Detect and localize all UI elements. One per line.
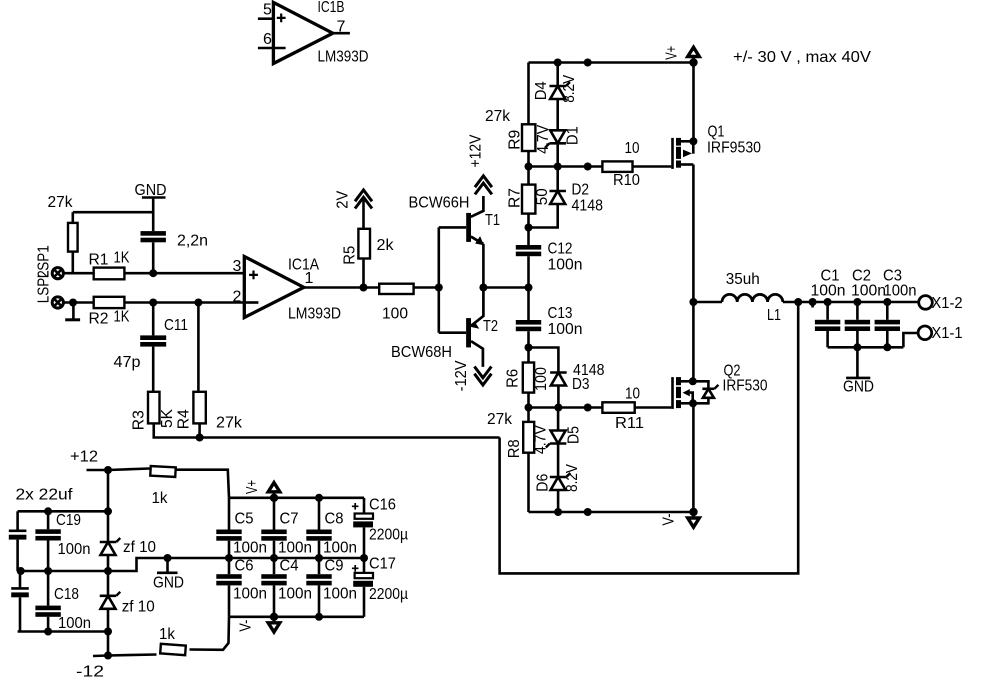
svg-text:V+: V+: [244, 480, 261, 494]
diode D6 8.2V zener: [535, 464, 581, 492]
junction feedback node: [196, 434, 204, 442]
svg-text:50: 50: [534, 188, 551, 205]
wire (to C11): [152, 303, 155, 336]
wire (rail to D4): [556, 63, 559, 87]
junction left bus top: [104, 507, 112, 515]
svg-text:10: 10: [625, 386, 640, 403]
value LM393D (IC1B): [318, 49, 369, 66]
svg-text:1k: 1k: [159, 626, 176, 643]
node A junction: [149, 269, 157, 277]
svg-text:2: 2: [233, 289, 242, 306]
svg-text:+/- 30 V , max 40V: +/- 30 V , max 40V: [733, 49, 871, 66]
wire (C1 bot): [826, 331, 829, 347]
svg-text:IC1B: IC1B: [318, 0, 345, 16]
wire (output to Q2 drain): [692, 302, 695, 381]
svg-text:2200µ: 2200µ: [369, 527, 408, 544]
svg-text:IRF9530: IRF9530: [707, 140, 761, 157]
wire bank V+ rail: [229, 496, 364, 499]
junction C19 mid: [44, 567, 52, 575]
svg-text:100n: 100n: [278, 540, 312, 557]
capacitor C9 100n: [306, 558, 357, 617]
wire (LSP1 to R1): [64, 272, 94, 275]
svg-text:R4: R4: [176, 409, 193, 429]
svg-text:X1-1: X1-1: [932, 325, 963, 342]
svg-text:LM393D: LM393D: [318, 49, 369, 66]
junction C8/C9: [315, 554, 323, 562]
svg-text:D5: D5: [565, 426, 582, 444]
svg-text:100n: 100n: [58, 541, 91, 558]
wire (C2 bot): [856, 331, 859, 347]
svg-text:47p: 47p: [114, 354, 141, 371]
wire (zener2 down): [107, 609, 110, 656]
junction feedback tap: [794, 298, 802, 306]
svg-text:1K: 1K: [114, 309, 130, 326]
junction V- rail D6: [554, 508, 562, 516]
op-amp IC1A: [244, 257, 303, 318]
wire (C2 col): [856, 302, 859, 320]
ground (LSP2 shield): [65, 303, 80, 320]
wire V+ rail: [529, 61, 694, 64]
junction C18 bottom: [44, 628, 52, 636]
resistor R6 100: [505, 363, 551, 393]
svg-text:LSP2: LSP2: [36, 270, 53, 303]
svg-text:L1: L1: [767, 307, 781, 324]
svg-text:7: 7: [337, 19, 346, 36]
wire (R4 column): [197, 303, 200, 392]
junction V- Q2: [690, 508, 698, 516]
resistor 27k input: [48, 194, 154, 273]
junction C16/C17: [360, 554, 368, 562]
junction C12/C13 mid: [525, 284, 533, 292]
wire (node to D3 col): [529, 348, 559, 373]
junction output node: [689, 298, 697, 306]
capacitor C2 100n: [845, 268, 886, 332]
wire (C13 to node 347): [527, 331, 530, 347]
op-amp IC1B: [273, 2, 332, 63]
wire (cap bottom bus): [828, 346, 904, 349]
junction stub x812: [809, 298, 817, 308]
junction Q1 source: [689, 137, 697, 145]
label IC1B: [318, 0, 345, 16]
transistor T1 BCW66H: [409, 195, 501, 246]
svg-text:100: 100: [382, 306, 408, 323]
wire left mid row: [18, 558, 168, 571]
junction row2 left: [525, 404, 533, 412]
capacitor 2,2n: [141, 231, 209, 249]
svg-text:10: 10: [625, 140, 640, 157]
resistor 100: [379, 284, 413, 323]
junction R7/D2/C12: [525, 224, 533, 232]
svg-text:C9: C9: [325, 558, 344, 575]
capacitor C8 100n: [306, 498, 357, 558]
svg-text:+12: +12: [70, 449, 98, 466]
junction Q2 drain: [689, 377, 697, 385]
svg-text:27k: 27k: [48, 194, 74, 211]
diode D1 4.7V zener: [535, 125, 582, 154]
svg-text:3: 3: [233, 258, 242, 275]
pin label 5: [263, 2, 272, 19]
svg-text:100n: 100n: [323, 540, 357, 557]
label -12: [76, 664, 104, 681]
svg-text:100n: 100n: [323, 586, 357, 603]
svg-text:C13: C13: [548, 305, 573, 322]
wire (+12 to 1k): [108, 469, 150, 471]
svg-text:4.7V: 4.7V: [532, 425, 549, 454]
resistor 1k top: [150, 466, 175, 507]
ground GND (bank): [153, 554, 184, 592]
wire (row1 to D2): [556, 167, 559, 192]
wire (row2 to R8): [527, 408, 530, 422]
junction +12: [104, 466, 112, 474]
label 2x 22uf: [16, 487, 74, 504]
resistor 1k bottom: [108, 617, 229, 656]
junction C7/C4: [270, 554, 278, 562]
svg-text:2,2n: 2,2n: [177, 233, 208, 250]
pin label 1: [305, 270, 314, 287]
junction base bus: [435, 284, 443, 292]
svg-text:Q1: Q1: [708, 124, 725, 141]
svg-text:5K: 5K: [159, 409, 176, 428]
capacitor C13 100n: [516, 305, 583, 338]
wire (emitter node to C12/C13 node): [483, 286, 528, 289]
svg-text:1: 1: [305, 270, 314, 287]
svg-text:+12V: +12V: [468, 134, 485, 167]
junction row1 D2: [554, 163, 562, 171]
svg-text:V+: V+: [664, 46, 681, 60]
svg-text:D1: D1: [565, 126, 582, 145]
capacitor C16 2200u: [352, 497, 408, 559]
svg-text:R7: R7: [507, 188, 524, 208]
wire (1k to V+ bank): [176, 470, 229, 498]
capacitor C3 100n: [875, 268, 917, 332]
capacitor C1 100n: [811, 268, 846, 332]
svg-text:R5: R5: [342, 246, 359, 265]
wire (T1 base): [439, 226, 466, 229]
wire (C1 col): [826, 302, 829, 320]
svg-text:R9: R9: [507, 130, 524, 150]
ground GND (input filter): [135, 182, 167, 231]
svg-text:100n: 100n: [884, 283, 917, 300]
svg-text:GND: GND: [153, 575, 184, 592]
svg-text:GND: GND: [843, 379, 874, 396]
wire (-12 lead): [93, 654, 108, 657]
wire (R8 to V- rail): [527, 453, 530, 512]
svg-text:100n: 100n: [233, 586, 267, 603]
wire (D1 to row1): [556, 143, 559, 166]
svg-text:6: 6: [263, 31, 272, 48]
transistor Q2 IRF530: [671, 363, 767, 409]
wire left bottom row: [18, 630, 108, 633]
svg-text:4.7V: 4.7V: [535, 125, 552, 154]
resistor R3 5K: [131, 392, 177, 430]
wire (Q2 source to V-): [692, 403, 695, 512]
wire (row2 to D5): [557, 408, 560, 431]
connector X1-1: [918, 325, 962, 342]
wire (rail to R9): [527, 63, 530, 125]
junction C19 top: [44, 507, 52, 515]
capacitor C4 100n: [261, 558, 312, 617]
wire (D3 to row2): [557, 386, 560, 408]
value LM393D (IC1A): [288, 306, 341, 323]
supply arrow V- (bank): [238, 613, 280, 632]
capacitor C11 47p: [114, 317, 189, 371]
junction C5/C6: [225, 554, 233, 562]
wire (R7 to C12 node): [527, 214, 530, 245]
svg-text:27k: 27k: [487, 411, 513, 428]
wire bank V- rail: [229, 615, 364, 618]
resistor R2 1K: [89, 297, 130, 328]
junction C11 top: [149, 299, 157, 307]
junction C2 top: [853, 298, 861, 306]
svg-text:1k: 1k: [152, 490, 169, 507]
junction bank bottom C9: [315, 613, 323, 621]
supply arrow V+ (main): [664, 46, 700, 67]
wire (D4 to D1): [556, 99, 559, 130]
resistor R1 1K: [89, 250, 130, 280]
supply arrow V+ (bank): [244, 480, 280, 502]
svg-text:R10: R10: [613, 172, 640, 189]
svg-text:1K: 1K: [114, 250, 130, 267]
wire (output node to L1): [693, 301, 722, 304]
diode D5 4.7V zener: [532, 425, 582, 454]
svg-text:100n: 100n: [548, 321, 583, 338]
capacitor C17 2200u: [352, 556, 408, 617]
diode D4 8.2V zener: [533, 75, 578, 103]
wire V- rail: [529, 511, 694, 514]
svg-text:R11: R11: [615, 415, 644, 432]
capacitor C18 100n: [35, 571, 91, 632]
svg-text:8.2V: 8.2V: [564, 464, 581, 492]
wire (D6 to V- rail): [557, 490, 560, 512]
junction top rail D4: [554, 59, 562, 67]
junction bank top C8: [315, 494, 323, 502]
inductor L1 35uh: [722, 271, 783, 324]
wire (+12 lead): [87, 469, 109, 472]
zener zf10 lower: [100, 592, 155, 616]
svg-text:R2: R2: [89, 311, 109, 328]
wire (R4 bottom): [198, 423, 201, 437]
svg-text:C18: C18: [54, 586, 79, 603]
pin 7 wire (IC1B output): [333, 32, 350, 35]
junction Q2 source: [689, 399, 697, 407]
resistor R7 50: [507, 185, 551, 214]
wire (R6 to row2): [527, 393, 530, 408]
wire base bus: [437, 227, 440, 332]
wire (zener1 to mid): [107, 555, 110, 571]
svg-text:LM393D: LM393D: [288, 306, 341, 323]
svg-text:C11: C11: [164, 317, 188, 334]
svg-text:C17: C17: [369, 556, 396, 573]
wire (T1 emitter down): [482, 244, 485, 288]
capacitor C5 100n: [216, 498, 267, 558]
wire (C11 to R3): [152, 347, 155, 392]
svg-text:100n: 100n: [233, 540, 267, 557]
svg-text:R6: R6: [505, 369, 522, 388]
body diode Q2: [693, 381, 719, 403]
capacitor C6 100n: [216, 558, 267, 617]
pin 5 wire (IC1B non-inverting input): [258, 17, 274, 20]
wire bank GND rail: [168, 557, 365, 560]
svg-text:T2: T2: [483, 318, 498, 335]
svg-text:C8: C8: [325, 511, 344, 528]
junction left bus bottom: [104, 628, 112, 636]
diode D3 4148: [550, 362, 604, 393]
wire (100 to base bus): [414, 286, 439, 289]
capacitor C19 100n: [35, 511, 90, 571]
resistor R5 2k: [342, 229, 395, 265]
junction V- rail x588: [584, 508, 592, 516]
wire (R11 to Q2 gate): [635, 406, 672, 409]
svg-text:-12V: -12V: [453, 360, 470, 391]
junction -12: [104, 652, 112, 660]
svg-text:4148: 4148: [572, 198, 604, 215]
wire (R3 bottom to feedback): [154, 423, 500, 437]
wire (C3 bot): [886, 331, 889, 347]
resistor R11 10: [602, 386, 644, 433]
svg-text:100n: 100n: [851, 283, 886, 300]
svg-text:zf 10: zf 10: [122, 599, 155, 616]
svg-text:100n: 100n: [278, 586, 312, 603]
zener zf10 upper: [100, 538, 156, 556]
svg-text:100: 100: [533, 367, 550, 391]
wire (D2 to R7 bottom): [529, 204, 558, 228]
svg-text:100n: 100n: [811, 283, 846, 300]
svg-text:D3: D3: [572, 376, 590, 393]
svg-text:BCW66H: BCW66H: [409, 195, 470, 212]
junction at LSP2: [69, 299, 77, 307]
svg-text:zf 10: zf 10: [123, 539, 156, 556]
svg-text:5: 5: [263, 2, 272, 19]
pin label 6: [263, 31, 272, 48]
label +12: [70, 449, 98, 466]
wire feedback loop: [500, 302, 799, 573]
junction mid left bus: [104, 567, 112, 575]
resistor R9 27k: [485, 108, 535, 151]
resistor R4 27k: [176, 392, 243, 432]
junction R5: [360, 284, 368, 292]
pin label 2: [233, 289, 242, 306]
svg-text:C6: C6: [235, 558, 254, 575]
svg-text:V-: V-: [238, 620, 255, 632]
svg-text:C19: C19: [56, 512, 81, 529]
label IC1A: [288, 257, 319, 274]
wire (T2 base): [439, 331, 466, 334]
wire row1 (gate Q1 row): [529, 165, 603, 168]
svg-text:27k: 27k: [216, 415, 243, 432]
junction 22uf mid: [17, 567, 25, 575]
supply arrow +12V: [468, 134, 492, 194]
junction R4 top: [194, 299, 202, 307]
wire (bus to X1-1): [903, 333, 918, 347]
svg-text:IRF530: IRF530: [723, 378, 768, 395]
wire (C3 col): [886, 302, 889, 320]
svg-text:2200µ: 2200µ: [369, 586, 408, 603]
svg-text:D4: D4: [533, 81, 550, 100]
supply arrow V- (main): [660, 508, 699, 527]
svg-text:100n: 100n: [548, 257, 583, 274]
supply arrow 2V: [335, 190, 373, 209]
ground GND (output): [843, 347, 874, 395]
junction C13/R6: [525, 344, 533, 352]
wire left top row: [18, 510, 108, 513]
junction cap bus C3: [883, 343, 891, 351]
pin label 7: [337, 19, 346, 36]
junction C1 top: [824, 298, 832, 306]
wire (R1 to IC1A pin3): [124, 272, 244, 275]
svg-text:35uh: 35uh: [726, 271, 760, 288]
pin 6 wire (IC1B inverting input): [258, 47, 286, 50]
svg-text:R3: R3: [131, 410, 148, 430]
label supply range: [733, 49, 871, 66]
svg-text:100n: 100n: [58, 615, 91, 632]
wire (+12 col down): [107, 470, 110, 542]
svg-text:R1: R1: [89, 252, 109, 269]
svg-text:T1: T1: [485, 212, 500, 229]
resistor R10 10: [602, 140, 640, 189]
wire (L1 to X1-2): [783, 301, 918, 304]
wire (R2 to IC1A pin2): [124, 301, 244, 304]
wire (mid to zener2): [107, 571, 110, 596]
wire (R10 to Q1 gate): [633, 165, 672, 168]
svg-text:D6: D6: [535, 474, 552, 492]
transistor Q1 IRF9530: [671, 124, 761, 169]
svg-text:2x 22uf: 2x 22uf: [16, 487, 74, 504]
wire (LSP2 to R2): [64, 301, 94, 304]
connector LSP1: [36, 245, 64, 279]
junction C3 top: [883, 298, 891, 306]
svg-text:-12: -12: [76, 664, 104, 681]
capacitor C7 100n: [261, 498, 312, 558]
resistor R8 27k: [487, 411, 534, 458]
wire (R9 to row1): [527, 151, 530, 167]
svg-text:BCW68H: BCW68H: [391, 344, 452, 361]
wire (R5 to output node): [362, 259, 365, 288]
connector LSP2: [36, 270, 64, 308]
wire (2V to R5): [362, 200, 365, 229]
wire row2 (gate Q2 row): [529, 406, 603, 409]
supply arrow -12V: [453, 360, 491, 391]
svg-text:X1-2: X1-2: [932, 295, 963, 312]
wire (V+ to Q1 source): [692, 63, 695, 142]
svg-text:27k: 27k: [485, 108, 511, 125]
wire (IC1A output): [304, 286, 379, 289]
capacitor 22uf upper: [9, 511, 27, 571]
wire (row1 to R7): [527, 167, 530, 185]
junction cap bus C2: [853, 343, 861, 351]
wire (Q1 drain down): [692, 165, 695, 303]
svg-text:R8: R8: [506, 439, 523, 458]
svg-text:8.2V: 8.2V: [561, 75, 578, 103]
svg-text:C16: C16: [369, 497, 396, 514]
svg-text:D2: D2: [572, 182, 590, 199]
junction row1 left: [525, 163, 533, 171]
svg-text:2k: 2k: [377, 237, 395, 254]
wire (C12 to mid node): [527, 256, 530, 320]
svg-text:C5: C5: [235, 511, 254, 528]
svg-text:C12: C12: [548, 241, 573, 258]
wire (2,2n to node A): [152, 242, 155, 273]
pin label 3: [233, 258, 242, 275]
svg-text:C7: C7: [280, 511, 299, 528]
capacitor C12 100n: [516, 241, 583, 274]
junction emitters: [479, 284, 487, 292]
svg-text:C4: C4: [280, 558, 299, 575]
capacitor 22uf lower: [11, 571, 29, 632]
svg-text:V-: V-: [660, 514, 677, 526]
transistor T2 BCW68H: [391, 288, 498, 367]
wire (node to R6): [527, 348, 530, 363]
svg-text:2V: 2V: [335, 190, 352, 208]
